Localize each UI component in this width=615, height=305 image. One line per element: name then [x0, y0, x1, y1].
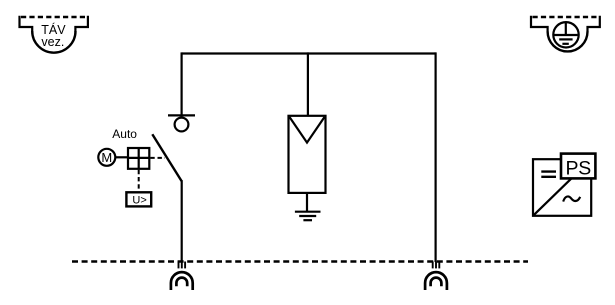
protective earth symbol bar 3 [562, 43, 568, 45]
mechanical link drive box to U> relay (dashed) [138, 170, 140, 192]
node earth boundary left corner bracket [531, 16, 548, 32]
protective earth symbol stem [565, 23, 567, 35]
right connector prong center [435, 262, 437, 269]
ground bar 1 [295, 211, 321, 213]
svg-text:vez.: vez. [41, 35, 64, 49]
left connector prong center [181, 262, 183, 269]
power supply PS label box [561, 154, 595, 179]
protective earth symbol bar 2 [559, 38, 572, 40]
switch contact circle [175, 118, 189, 132]
bottom boundary dashed line [72, 260, 528, 262]
node earth boundary dashed line [533, 16, 600, 18]
left connector prong right [184, 262, 186, 269]
right connector socket outer arch [425, 272, 447, 290]
svg-text:Auto: Auto [112, 127, 137, 141]
wire arrester to ground [306, 193, 308, 212]
protective earth symbol bar 1 [554, 34, 578, 36]
ground bar 3 [303, 219, 312, 221]
left connector socket inner arch [176, 278, 187, 287]
wire right drop from bus to bottom boundary [435, 52, 437, 262]
wire motor to drive box [115, 156, 128, 158]
svg-text:M: M [101, 150, 112, 165]
wire below switch to bottom boundary [181, 180, 183, 262]
right connector prong left [432, 262, 434, 269]
motor drive box cross horizontal [128, 157, 149, 159]
right connector socket inner arch [431, 278, 442, 287]
node TAV vez. boundary semicircle [32, 31, 75, 53]
ground bar 2 [299, 215, 316, 217]
motor drive box cross vertical [138, 148, 140, 169]
switch fixed contact T-bar [168, 114, 195, 116]
motor drive M circle [98, 149, 115, 166]
power supply diagonal [534, 160, 591, 216]
node TAV vez. boundary left corner bracket [20, 16, 33, 32]
right connector prong right [438, 262, 440, 269]
wire center drop from bus to arrester [307, 52, 309, 116]
node TAV vez. boundary (telecom line) dashed line [21, 16, 87, 18]
wire left drop from bus to switch contact [181, 52, 183, 115]
svg-text:U>: U> [132, 194, 146, 206]
switch blade (open) [152, 134, 181, 181]
power supply DC symbol = [541, 172, 556, 177]
protective earth symbol circle [553, 22, 578, 47]
motor drive mechanism box [128, 148, 149, 169]
node earth boundary semicircle [548, 32, 588, 52]
left connector prong left [178, 262, 180, 269]
svg-text:PS: PS [565, 157, 591, 179]
power supply PS main box [533, 159, 591, 216]
mechanical link drive box to blade (dashed) [150, 157, 165, 159]
left connector socket outer arch [171, 272, 193, 290]
surge arrester body [289, 116, 326, 193]
power supply AC symbol ~ [563, 196, 580, 201]
wire top bus [182, 52, 436, 54]
node TAV vez. boundary right corner bracket [75, 16, 88, 32]
surge arrester chevron [290, 117, 325, 143]
overvoltage relay U> box [126, 192, 151, 206]
node earth boundary right corner bracket [588, 16, 600, 32]
